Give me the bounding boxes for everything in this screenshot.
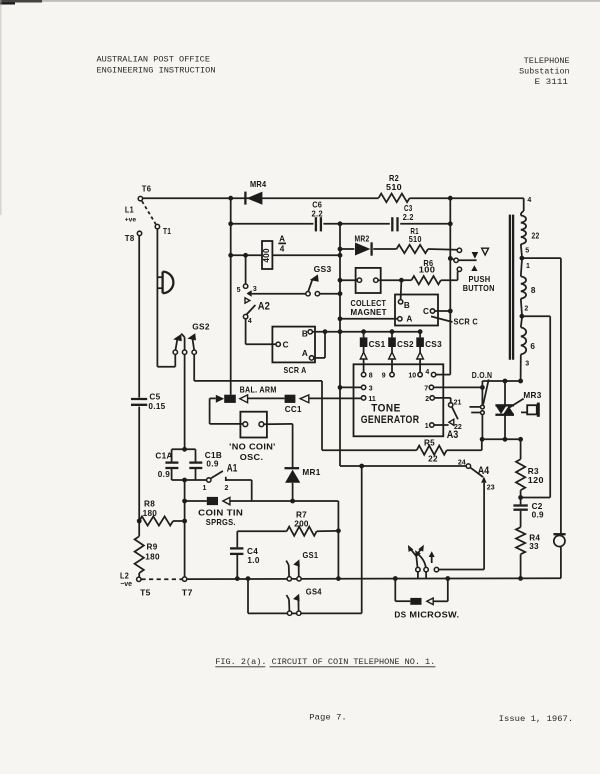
svg-text:C1A: C1A (155, 452, 172, 461)
svg-text:A: A (406, 314, 412, 323)
svg-text:C: C (423, 307, 429, 316)
pin 10 (418, 372, 422, 376)
wire right rail x450 (449, 198, 451, 374)
svg-text:120: 120 (528, 476, 544, 485)
winding 8 (521, 260, 522, 276)
svg-text:9: 9 (382, 373, 386, 380)
svg-text:2: 2 (524, 306, 528, 313)
svg-text:R3: R3 (528, 467, 539, 476)
svg-text:0.9: 0.9 (532, 510, 544, 519)
capacitor C1A (165, 461, 178, 463)
resistor R2 (379, 194, 410, 203)
svg-text:Substation: Substation (519, 67, 570, 77)
svg-text:33: 33 (529, 542, 539, 551)
wire GS2mid rail down to T7 (184, 480, 186, 577)
svg-text:5: 5 (525, 247, 529, 254)
wire C1 top bracket (172, 448, 196, 450)
svg-text:A4: A4 (478, 465, 490, 477)
CC1 coin contact (285, 395, 296, 403)
svg-text:R5: R5 (424, 439, 435, 448)
svg-text:A: A (302, 349, 308, 358)
svg-text:GS3: GS3 (314, 265, 332, 274)
collect magnet box (356, 268, 381, 293)
svg-text:SCR C: SCR C (454, 317, 479, 326)
svg-text:400: 400 (262, 248, 271, 263)
svg-text:180: 180 (145, 552, 160, 561)
wire DON bottom line (482, 438, 520, 440)
svg-text:Page 7.: Page 7. (309, 712, 347, 722)
svg-text:CS1: CS1 (369, 340, 386, 349)
capacitor C5 (131, 398, 147, 400)
svg-text:GS2: GS2 (192, 323, 210, 332)
coil 400 (A/4) (262, 241, 272, 269)
svg-text:−ve: −ve (120, 581, 132, 588)
wire rail to A4 line (340, 465, 468, 467)
wire GS2 mid down to C1 bracket (184, 354, 186, 449)
pin 9 (390, 372, 394, 376)
pin 3 (361, 385, 365, 389)
winding junction 2 (520, 314, 525, 319)
wire no-coin osc to MR1 (264, 423, 293, 425)
SCR C label (431, 316, 453, 322)
switch GS3 (252, 293, 306, 295)
svg-text:C: C (283, 340, 289, 349)
svg-text:4: 4 (425, 369, 429, 376)
svg-text:PUSH: PUSH (469, 275, 491, 284)
svg-text:6: 6 (530, 342, 535, 351)
receiver earpiece (157, 276, 162, 278)
svg-text:2.2: 2.2 (403, 213, 414, 222)
svg-text:+ve: +ve (125, 216, 137, 223)
svg-text:T5: T5 (140, 589, 151, 598)
pin 2 (430, 396, 434, 400)
svg-text:MR4: MR4 (250, 180, 267, 189)
svg-text:MR1: MR1 (302, 468, 320, 477)
wire vertical to bal.arm (230, 198, 232, 395)
svg-text:ENGINEERING INSTRUCTION: ENGINEERING INSTRUCTION (97, 66, 216, 76)
svg-text:2: 2 (224, 485, 228, 492)
svg-text:C6: C6 (312, 201, 322, 210)
svg-text:MR3: MR3 (523, 391, 541, 400)
svg-text:A: A (279, 234, 285, 243)
switch A3 (434, 397, 450, 399)
wire pin11 line to CC1/BAL.ARM (309, 397, 361, 399)
scan edge artifact top (0, 0, 600, 2)
svg-text:11: 11 (368, 396, 376, 403)
no coin osc box (240, 412, 267, 438)
svg-text:GENERATOR: GENERATOR (361, 414, 420, 426)
capacitor C4 (236, 531, 238, 547)
svg-text:22: 22 (532, 232, 540, 241)
winding junction 5/1 (520, 256, 525, 261)
switch GS2 (173, 350, 177, 354)
SCR A box (272, 327, 315, 363)
terminal T5 / node L2 -ve (137, 577, 141, 581)
svg-text:COLLECT: COLLECT (351, 299, 387, 308)
svg-text:R2: R2 (389, 174, 399, 183)
svg-text:22: 22 (428, 455, 438, 464)
winding 22 (523, 198, 525, 211)
svg-text:MR2: MR2 (355, 235, 370, 244)
svg-text:7: 7 (424, 385, 428, 392)
svg-text:TONE: TONE (371, 402, 401, 414)
svg-text:0.9: 0.9 (158, 470, 170, 479)
svg-text:Issue 1, 1967.: Issue 1, 1967. (499, 714, 574, 724)
pin 11 (361, 396, 365, 400)
wire C1 bottom bracket to A1 (171, 469, 173, 480)
svg-text:C3: C3 (404, 204, 413, 213)
svg-text:AUSTRALIAN POST OFFICE: AUSTRALIAN POST OFFICE (97, 54, 211, 64)
svg-text:3: 3 (253, 286, 257, 293)
switch GS4 (287, 611, 291, 615)
pin 1 (430, 423, 434, 427)
pin 8 (361, 372, 365, 376)
svg-text:24: 24 (458, 459, 466, 466)
resistor R5 (417, 446, 447, 455)
transformer core (509, 215, 511, 360)
wire A2-4 to SCR A gate (245, 319, 247, 345)
svg-text:BAL. ARM: BAL. ARM (240, 385, 277, 394)
wire SCR A B-A loop (324, 332, 326, 358)
wire collect magnet line (340, 279, 357, 281)
svg-text:5: 5 (237, 287, 241, 294)
svg-text:R7: R7 (296, 511, 307, 520)
svg-text:CS2: CS2 (397, 340, 414, 349)
wire top line T6 to transformer (143, 197, 379, 199)
svg-text:B: B (302, 329, 308, 338)
resistor R4 (516, 527, 525, 554)
triac MR3 (495, 404, 514, 406)
svg-text:A2: A2 (258, 300, 270, 312)
svg-text:FIG. 2(a). CIRCUIT OF COIN TE: FIG. 2(a). CIRCUIT OF COIN TELEPHONE NO.… (215, 657, 435, 667)
MR3 gate actuator (521, 411, 527, 413)
svg-text:1: 1 (526, 263, 530, 270)
switch GS1 (287, 577, 291, 581)
wire MR2/R1 line (340, 248, 354, 250)
wire 400-coil line (231, 254, 340, 256)
svg-text:R8: R8 (144, 500, 155, 509)
svg-text:SCR A: SCR A (284, 366, 307, 375)
svg-text:8: 8 (531, 286, 536, 295)
terminal T7 (182, 577, 186, 581)
capacitor C1B (189, 461, 202, 463)
terminal T6 (138, 196, 142, 200)
wire GS4 branch (247, 579, 249, 614)
resistor R7 (287, 527, 317, 536)
resistor R9 (135, 536, 144, 573)
wire bal.arm to no-coin osc (209, 398, 211, 424)
terminal T8 (137, 231, 141, 235)
wire T1 down to receiver and GS2 (156, 229, 158, 367)
svg-text:TELEPHONE: TELEPHONE (524, 56, 570, 66)
svg-text:OSC.: OSC. (240, 453, 263, 462)
svg-text:CS3: CS3 (425, 340, 442, 349)
svg-text:T7: T7 (182, 589, 193, 598)
capacitor C3 (391, 217, 393, 231)
winding 6 (521, 318, 522, 327)
wire SCR C A to rail (340, 318, 398, 320)
svg-text:T8: T8 (125, 234, 135, 243)
switch A2 (245, 255, 247, 284)
svg-text:GS4: GS4 (306, 588, 322, 597)
svg-text:3: 3 (369, 385, 373, 392)
svg-text:23: 23 (487, 485, 495, 492)
svg-text:4: 4 (280, 245, 285, 254)
svg-text:E 3111: E 3111 (535, 77, 569, 87)
svg-text:1.0: 1.0 (247, 556, 259, 565)
svg-text:T1: T1 (163, 227, 171, 236)
svg-text:'NO COIN': 'NO COIN' (229, 443, 276, 452)
svg-text:3: 3 (525, 361, 529, 368)
wire line C6/C3 (231, 223, 314, 225)
wire coin-tin line down to R7 (337, 501, 339, 579)
DS spring blades (416, 553, 418, 567)
wire DS right contact to A4 (439, 569, 484, 571)
diode MR4 (244, 192, 246, 205)
wire CS feeder (340, 331, 420, 333)
svg-text:MICROSW.: MICROSW. (409, 611, 459, 620)
svg-text:2: 2 (425, 396, 429, 403)
microphone transmitter (560, 258, 562, 533)
svg-text:8: 8 (369, 373, 373, 380)
svg-text:0.15: 0.15 (148, 402, 165, 411)
svg-text:1: 1 (425, 423, 429, 430)
switch A1 (207, 478, 211, 482)
rectifier CS3 (419, 332, 421, 338)
wire SCR A B to rail (312, 331, 340, 333)
resistor R1 (397, 245, 429, 253)
diode MR1 (285, 467, 300, 469)
svg-text:4: 4 (527, 197, 531, 204)
svg-text:CC1: CC1 (285, 405, 302, 414)
wire C2 node to transformer tap 2 (521, 497, 551, 499)
wire T8 down to T5 (left rail) (138, 236, 140, 398)
wire DON top line (482, 380, 520, 382)
svg-text:BUTTON: BUTTON (463, 284, 495, 293)
svg-text:SPRGS.: SPRGS. (206, 518, 236, 527)
rectifier CS2 (391, 332, 393, 338)
svg-text:510: 510 (409, 235, 422, 244)
svg-text:C4: C4 (247, 547, 258, 556)
svg-text:DS: DS (394, 611, 406, 620)
SCR C box (395, 295, 438, 326)
coin tin springs contact (185, 500, 207, 502)
wire to R3/C2 branch (522, 315, 550, 317)
svg-text:B: B (404, 301, 410, 310)
wire to mic rail (522, 257, 561, 259)
diode MR2 (355, 243, 370, 256)
pin 4 (431, 372, 435, 376)
svg-text:A3: A3 (447, 429, 459, 441)
resistor R6 (412, 276, 441, 284)
svg-text:R9: R9 (147, 543, 158, 552)
DS spring contacts (416, 567, 420, 571)
svg-text:200: 200 (294, 519, 309, 528)
svg-text:T6: T6 (142, 184, 152, 193)
push button contacts (457, 248, 461, 252)
svg-text:2.2: 2.2 (311, 209, 323, 218)
wire dashed T5-T7 (141, 578, 182, 580)
capacitor C6 (315, 217, 317, 231)
wire main mid rail x340 (339, 224, 341, 466)
wire SCR C C to rail (435, 310, 451, 312)
pin 7 (429, 385, 433, 389)
svg-text:D.O.N: D.O.N (472, 371, 493, 380)
svg-text:0.9: 0.9 (206, 459, 218, 468)
svg-text:4: 4 (248, 318, 252, 325)
rectifier CS1 (363, 332, 365, 338)
tone generator box (354, 364, 444, 436)
terminal T1 (155, 224, 159, 228)
wire MR3 branch (504, 381, 506, 405)
svg-text:180: 180 (143, 509, 158, 518)
wire A4 down to DS (483, 483, 485, 570)
svg-text:510: 510 (386, 183, 402, 192)
resistor R3 (520, 439, 522, 459)
wire dashed T6-T1 (142, 201, 156, 224)
svg-text:A1: A1 (227, 463, 238, 475)
svg-text:MAGNET: MAGNET (351, 308, 387, 317)
svg-text:L1: L1 (125, 206, 134, 215)
svg-text:100: 100 (419, 265, 436, 274)
wire GS2 right to tone-gen column (193, 354, 195, 381)
capacitor C2 (520, 498, 522, 505)
wire A1-2 down to coin tin line (226, 479, 252, 481)
svg-text:COIN TIN: COIN TIN (198, 509, 243, 518)
wire R6 node down to SCR C B (400, 280, 403, 299)
wire bottom rail T7 to mic (187, 577, 561, 580)
svg-text:L2: L2 (120, 571, 129, 580)
svg-text:GS1: GS1 (303, 551, 319, 560)
svg-text:10: 10 (408, 373, 416, 380)
svg-text:C5: C5 (149, 393, 160, 402)
DS microswitch element (394, 579, 396, 602)
svg-text:1: 1 (202, 485, 206, 492)
resistor R8 (139, 516, 173, 525)
svg-text:21: 21 (454, 399, 462, 406)
